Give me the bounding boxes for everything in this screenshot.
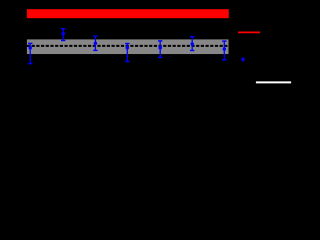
legend blue errorbar marker (241, 57, 245, 61)
white line (256, 81, 291, 83)
error bar point 4 (125, 44, 129, 62)
error bar point 6 (190, 37, 194, 51)
red exclusion bar (27, 9, 229, 18)
gray uncertainty band (27, 39, 229, 54)
error bar point 7 (222, 41, 226, 60)
error bar point 2 (61, 29, 65, 41)
error bar point 5 (158, 41, 162, 58)
black dashed model line (27, 45, 229, 47)
error bar point 1 (28, 43, 32, 63)
legend red line (238, 31, 260, 33)
error bar point 3 (93, 36, 97, 50)
